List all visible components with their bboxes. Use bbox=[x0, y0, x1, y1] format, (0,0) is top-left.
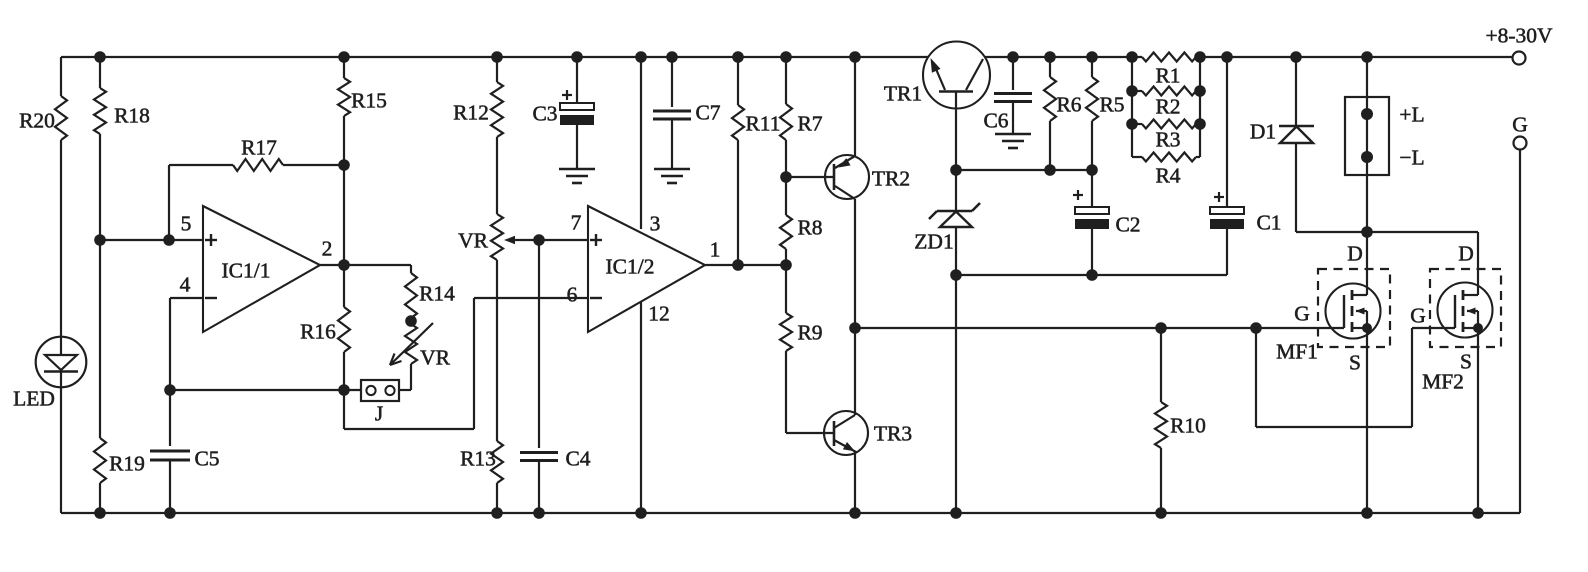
node top rail R7 bbox=[780, 51, 792, 63]
node bottom rail ZD1 bbox=[950, 507, 962, 519]
node cap bottom row bbox=[950, 269, 962, 281]
node R18/R19 pin5 bbox=[94, 234, 106, 246]
svg-text:R11: R11 bbox=[745, 111, 780, 135]
resistor R4 bbox=[1132, 153, 1200, 188]
wire R17 feedback riser bbox=[169, 165, 344, 240]
svg-text:IC1/1: IC1/1 bbox=[222, 258, 271, 282]
ground C3 bbox=[559, 169, 595, 183]
svg-text:MF1: MF1 bbox=[1276, 339, 1318, 363]
resistor R19 bbox=[94, 438, 145, 483]
resistor R2 bbox=[1132, 87, 1200, 119]
resistor R11 bbox=[732, 57, 781, 265]
svg-text:4: 4 bbox=[180, 272, 191, 296]
wire pin6 detour bbox=[344, 298, 588, 429]
resistor R18 bbox=[94, 88, 150, 134]
node bottom rail R13 bbox=[491, 507, 503, 519]
node bottom rail MF2 bbox=[1472, 507, 1484, 519]
svg-text:D: D bbox=[1347, 241, 1363, 265]
svg-text:2: 2 bbox=[322, 236, 333, 260]
svg-text:+L: +L bbox=[1399, 102, 1424, 126]
svg-text:R6: R6 bbox=[1056, 92, 1081, 116]
wire ladder columns bbox=[1132, 57, 1200, 157]
op-amp IC1/1 bbox=[180, 206, 333, 332]
node top rail / R18 bbox=[94, 51, 106, 63]
resistor R9 bbox=[780, 265, 834, 433]
node top rail R6 bbox=[1044, 51, 1056, 63]
svg-text:D1: D1 bbox=[1250, 119, 1276, 143]
capacitor C4 bbox=[520, 240, 591, 513]
node top rail C3 bbox=[571, 51, 583, 63]
resistor R14 bbox=[405, 265, 455, 321]
svg-text:MF2: MF2 bbox=[1422, 369, 1464, 393]
node top rail R15 bbox=[338, 51, 350, 63]
svg-text:1: 1 bbox=[710, 237, 721, 261]
wire R18/R19 column bbox=[99, 57, 101, 513]
resistor R5 bbox=[1086, 57, 1125, 170]
node output R7/R8 bbox=[780, 259, 792, 271]
svg-text:TR3: TR3 bbox=[874, 421, 912, 445]
svg-text:C5: C5 bbox=[194, 446, 219, 470]
node J left bbox=[338, 384, 350, 396]
wire left branch (R20/LED) bbox=[60, 57, 62, 513]
node bottom rail C4 bbox=[533, 507, 545, 519]
wire D1 to MF drains bbox=[1296, 231, 1478, 233]
svg-text:R8: R8 bbox=[797, 215, 822, 239]
resistor R15 bbox=[338, 78, 387, 116]
resistor R6 bbox=[1044, 57, 1082, 170]
resistor R12 bbox=[453, 82, 503, 137]
wire pin 3 supply bbox=[640, 57, 642, 229]
wire pin 5 input bbox=[100, 239, 203, 241]
capacitor C2 bbox=[1073, 170, 1141, 275]
wire R12 column bbox=[496, 57, 498, 513]
potentiometer wiper arrow bbox=[504, 236, 539, 244]
svg-text:J: J bbox=[375, 401, 383, 425]
ground C6 bbox=[995, 134, 1031, 148]
rheostat VR bbox=[399, 324, 451, 390]
svg-text:R12: R12 bbox=[453, 100, 489, 124]
svg-text:7: 7 bbox=[571, 210, 582, 234]
svg-text:R13: R13 bbox=[460, 446, 496, 470]
svg-text:+8-30V: +8-30V bbox=[1485, 23, 1553, 47]
node ladder right R3 bbox=[1194, 118, 1206, 130]
node ladder left top bbox=[1126, 51, 1138, 63]
capacitor C1 bbox=[1210, 57, 1282, 275]
connector +L/-L bbox=[1345, 57, 1425, 232]
svg-text:R20: R20 bbox=[19, 108, 55, 132]
node top rail R5 bbox=[1086, 51, 1098, 63]
LED bbox=[13, 337, 86, 411]
resistor R13 bbox=[460, 441, 503, 483]
wire output 2 row bbox=[320, 264, 411, 266]
node drive row TR3 collector bbox=[849, 322, 861, 334]
node bottom rail C5 bbox=[164, 507, 176, 519]
svg-text:R5: R5 bbox=[1099, 92, 1124, 116]
svg-text:6: 6 bbox=[567, 282, 578, 306]
node bottom rail R10 bbox=[1155, 507, 1167, 519]
wire top supply rail bbox=[61, 56, 1512, 58]
node ladder right R2 bbox=[1194, 85, 1206, 97]
node top rail pin3 bbox=[635, 51, 647, 63]
svg-text:C7: C7 bbox=[695, 100, 720, 124]
node MF1 drain junction bbox=[1361, 226, 1373, 238]
node R17 tap bbox=[163, 234, 175, 246]
capacitor C6 bbox=[983, 57, 1032, 134]
svg-text:R15: R15 bbox=[351, 88, 387, 112]
svg-text:D: D bbox=[1458, 241, 1474, 265]
resistor R7 bbox=[780, 57, 823, 177]
svg-text:R18: R18 bbox=[114, 103, 150, 127]
wire MF2 gate branch bbox=[1256, 328, 1455, 427]
node wiper bbox=[533, 234, 545, 246]
svg-text:C4: C4 bbox=[565, 446, 590, 470]
svg-text:C1: C1 bbox=[1256, 210, 1281, 234]
svg-text:−L: −L bbox=[1399, 145, 1424, 169]
resistor R10 bbox=[1155, 328, 1206, 513]
node bottom rail R19 bbox=[94, 507, 106, 519]
node bottom rail TR3 bbox=[849, 507, 861, 519]
transistor TR1 bbox=[884, 42, 990, 171]
capacitor C7 bbox=[653, 57, 721, 169]
svg-text:R19: R19 bbox=[109, 451, 145, 475]
wire J row bbox=[170, 389, 361, 391]
node top rail +L bbox=[1361, 51, 1373, 63]
svg-text:ZD1: ZD1 bbox=[914, 229, 953, 253]
wire gate drive row bbox=[855, 327, 1344, 329]
node top rail TR2 bbox=[849, 51, 861, 63]
node R10 top bbox=[1155, 322, 1167, 334]
resistor R20 bbox=[19, 96, 67, 140]
svg-text:R2: R2 bbox=[1155, 94, 1180, 118]
node cap row C2 bbox=[1086, 269, 1098, 281]
potentiometer VR body bbox=[458, 214, 503, 260]
node MF2 gate branch bbox=[1250, 322, 1262, 334]
svg-text:C3: C3 bbox=[532, 101, 557, 125]
svg-text:R16: R16 bbox=[300, 319, 336, 343]
transistor TR2 bbox=[786, 57, 910, 415]
svg-text:12: 12 bbox=[648, 301, 670, 325]
svg-text:G: G bbox=[1410, 303, 1426, 327]
resistor R8 bbox=[780, 177, 823, 265]
node top rail R11 bbox=[732, 51, 744, 63]
svg-text:R10: R10 bbox=[1170, 413, 1206, 437]
wire R15/R16 column bbox=[343, 57, 345, 390]
node zener row R5 bbox=[1086, 164, 1098, 176]
node top rail C1 bbox=[1221, 51, 1233, 63]
ground C7 bbox=[654, 169, 690, 183]
node R14/VR wiper bbox=[405, 315, 417, 327]
node output R11 bbox=[732, 259, 744, 271]
svg-text:G: G bbox=[1294, 301, 1310, 325]
node bottom rail MF1 bbox=[1361, 507, 1373, 519]
resistor R16 bbox=[300, 307, 350, 352]
svg-text:R3: R3 bbox=[1155, 127, 1180, 151]
zener ZD1 bbox=[914, 170, 980, 513]
node ladder left R3 bbox=[1126, 118, 1138, 130]
terminal +8-30V bbox=[1485, 23, 1553, 64]
svg-text:R4: R4 bbox=[1155, 163, 1180, 187]
capacitor C5 bbox=[150, 390, 220, 513]
wire output 1 row bbox=[705, 264, 786, 266]
node top rail D1 bbox=[1290, 51, 1302, 63]
svg-text:LED: LED bbox=[13, 386, 55, 410]
rheostat VR arrow bbox=[390, 323, 433, 365]
svg-text:R14: R14 bbox=[419, 281, 455, 305]
MOSFET MF1 bbox=[1276, 232, 1390, 513]
svg-text:VR: VR bbox=[458, 228, 489, 252]
node TR1 base / zener row bbox=[950, 164, 962, 176]
node C5 top bbox=[164, 384, 176, 396]
svg-text:C2: C2 bbox=[1115, 212, 1140, 236]
node top rail C7 bbox=[666, 51, 678, 63]
diode D1 bbox=[1250, 57, 1314, 232]
svg-text:VR: VR bbox=[420, 345, 451, 369]
svg-text:TR1: TR1 bbox=[884, 81, 922, 105]
transistor TR3 bbox=[824, 411, 912, 513]
svg-text:5: 5 bbox=[181, 211, 192, 235]
wire bottom ground rail bbox=[61, 512, 1520, 514]
wire wiper to pin 7 bbox=[539, 239, 588, 241]
svg-text:R1: R1 bbox=[1155, 63, 1180, 87]
svg-text:R17: R17 bbox=[241, 135, 277, 159]
MOSFET MF2 bbox=[1410, 232, 1501, 513]
svg-text:S: S bbox=[1349, 350, 1361, 374]
node ladder right top bbox=[1194, 51, 1206, 63]
wire cap bottom row bbox=[956, 274, 1227, 276]
resistor R1 bbox=[1142, 53, 1196, 88]
op-amp IC1/2 bbox=[567, 206, 721, 332]
svg-text:C6: C6 bbox=[983, 108, 1008, 132]
node TR2 base bbox=[780, 171, 792, 183]
svg-text:G: G bbox=[1512, 112, 1528, 136]
node zener row R6 bbox=[1044, 164, 1056, 176]
wire pin 12 ground bbox=[640, 302, 642, 513]
node top rail C6 bbox=[1007, 51, 1019, 63]
capacitor C3 bbox=[532, 57, 594, 169]
wire pin 4 feedback bbox=[170, 298, 203, 390]
wire zener row bbox=[956, 169, 1092, 171]
svg-text:R9: R9 bbox=[797, 320, 822, 344]
node IC1/1 output 2 bbox=[338, 259, 350, 271]
svg-text:R7: R7 bbox=[797, 111, 822, 135]
node ladder left R2 bbox=[1126, 85, 1138, 97]
node bottom rail pin12 bbox=[635, 507, 647, 519]
svg-text:IC1/2: IC1/2 bbox=[606, 254, 655, 278]
node top rail R12 bbox=[491, 51, 503, 63]
node R17/R15 junction bbox=[338, 159, 350, 171]
resistor R3 bbox=[1132, 120, 1200, 152]
jumper J bbox=[361, 380, 399, 425]
svg-text:3: 3 bbox=[650, 211, 661, 235]
resistor R17 bbox=[233, 135, 283, 171]
terminal G bbox=[1512, 112, 1528, 513]
svg-text:TR2: TR2 bbox=[872, 166, 910, 190]
